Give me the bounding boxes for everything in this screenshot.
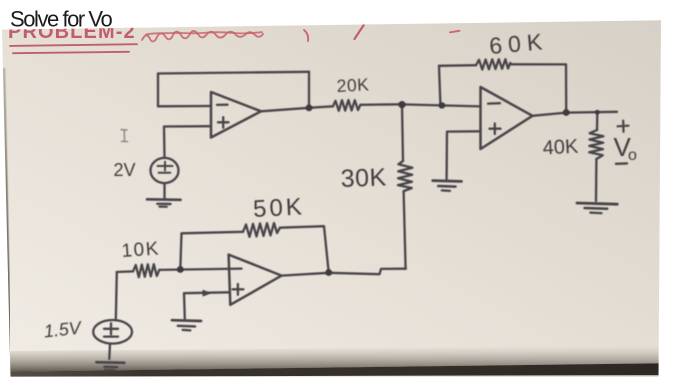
svg-text:10K: 10K [121,238,161,262]
svg-text:60K: 60K [488,28,549,59]
svg-text:Solve for Vo: Solve for Vo [10,7,112,32]
svg-text:2V: 2V [114,160,136,180]
svg-text:40K: 40K [542,136,579,160]
svg-text:20K: 20K [336,74,370,96]
svg-text:1.5V: 1.5V [43,318,84,342]
svg-text:30K: 30K [340,163,387,193]
svg-text:50K: 50K [252,193,305,223]
svg-text:o: o [628,147,637,164]
